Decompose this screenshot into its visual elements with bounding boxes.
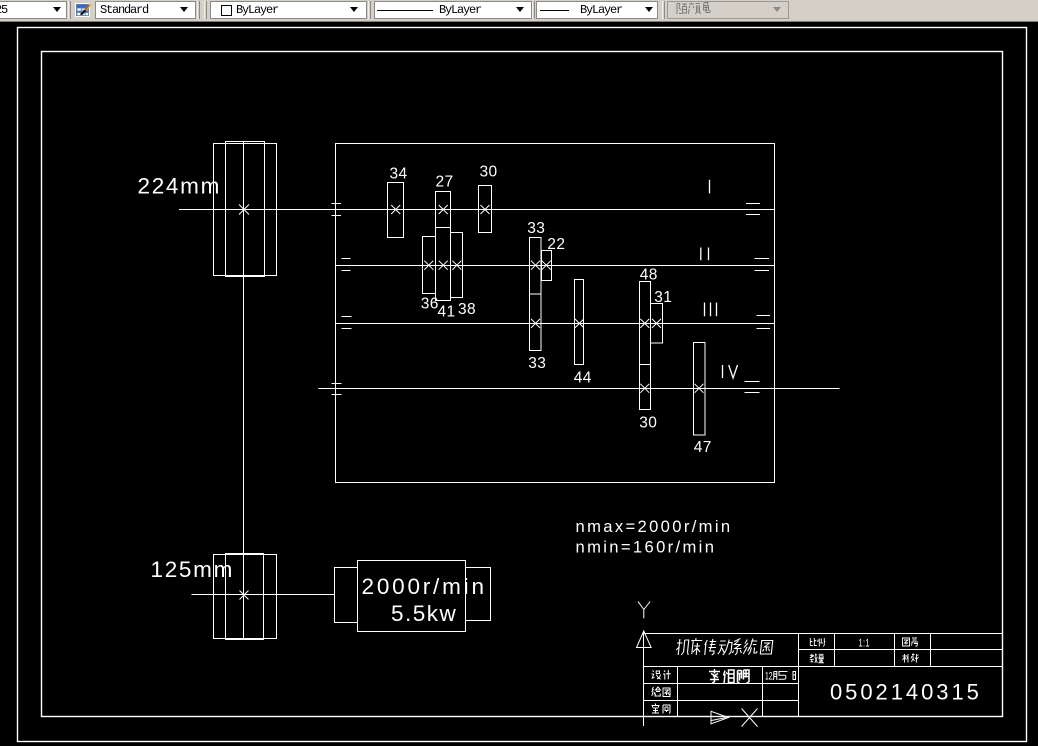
svg-text:1:1: 1:1 [859,636,870,649]
gear 38 [451,233,463,298]
svg-text:33: 33 [528,355,546,372]
pulley P2 belt groove [226,554,264,640]
gear 34 key mark [391,205,400,214]
belt line [243,142,245,640]
char 传 [704,639,717,655]
gear 30 key mark [481,205,490,214]
text style combo [95,1,196,19]
bearing shaft IV right [745,382,760,393]
pulley P2 center mark [240,591,249,600]
title block line row3 [644,683,799,685]
label 数量 [810,654,824,663]
随 [677,4,687,15]
label 比例 [810,638,825,647]
grips [197,1,200,19]
gear 22 key mark [542,261,551,270]
title text 机床传动系统图 [676,638,773,655]
toolbar grip [68,1,71,19]
pulley P2 125mm rim [214,555,277,639]
gear 38 key mark [452,261,461,270]
label 绘图 [652,687,670,697]
date glyph month [773,672,777,681]
motor rear housing [466,568,491,621]
svg-text:2000r/min: 2000r/min [362,574,487,599]
svg-text:22: 22 [547,236,565,253]
title block scale row divider [799,649,1003,651]
gear 47 key mark [695,384,704,393]
title block outline top [644,633,1003,635]
motor coupling flange [335,568,358,623]
title block col scale [834,634,836,667]
bearing shaft III left [342,317,352,329]
bearing shaft II right [755,259,770,271]
pulley P1 belt groove [226,142,265,277]
svg-text:44: 44 [574,370,592,387]
shaft I [179,209,775,211]
bearing shaft I left [332,204,342,216]
gear 33 lower [530,294,542,351]
gear 47 [694,343,706,436]
svg-text:31: 31 [654,289,672,306]
grip [532,1,535,19]
motor shaft line [192,594,336,596]
plot style combo (disabled) [667,1,789,19]
svg-text:41: 41 [438,303,456,320]
gear 30 lower [640,365,651,410]
gear 31 [651,304,663,344]
svg-text:224mm: 224mm [138,174,222,199]
gear 27 key mark [439,205,448,214]
label 材料 [903,654,919,663]
svg-text:30: 30 [639,415,657,432]
svg-text:nmin=160r/min: nmin=160r/min [576,538,717,557]
title block left edge [643,634,645,718]
char 系 [732,639,743,656]
gear 44 [575,280,584,365]
svg-text:12: 12 [765,670,773,682]
gear 34 [388,183,404,238]
gear 30 lower key mark [640,384,649,393]
shaft II [336,265,775,267]
shaft III numeral [705,303,717,317]
color combo [210,1,367,19]
svg-text:5.5kw: 5.5kw [391,601,457,626]
色 [703,3,710,13]
date glyph 5 [779,672,788,680]
svg-text:0502140315: 0502140315 [830,680,982,705]
svg-text:36: 36 [421,296,439,313]
svg-text:48: 48 [640,267,658,284]
label 图号 [903,638,919,646]
svg-text:30: 30 [480,164,498,181]
svg-text:27: 27 [436,173,454,190]
motor body [358,561,466,632]
title block col name [762,667,764,718]
title block col labels [677,667,679,718]
svg-text:38: 38 [458,301,476,318]
title block line row2 [644,666,1003,668]
label 李旭鹏 name [709,669,749,684]
grip [662,1,665,19]
title block line row4 [644,700,799,702]
pulley P1 center mark [239,205,249,215]
svg-text:47: 47 [694,439,712,456]
gear 36 key mark [424,261,433,270]
gear 22 [542,251,552,281]
bearing shaft III right [757,316,771,329]
shaft III [336,323,775,325]
char 图 [760,641,772,655]
label 设计 [652,670,671,680]
label 审阅 [652,704,671,714]
shaft IV numeral [723,365,738,378]
gear 31 key mark [652,319,661,328]
gear 48 key mark [640,319,649,328]
char 机 [676,639,690,655]
gear 41 [436,228,451,301]
UCS X letter [742,709,758,727]
gear 44 key mark [575,319,584,328]
gear 41 key mark [439,261,448,270]
bearing shaft I right [746,204,760,215]
title block col scaleval [894,634,896,667]
linetype combo [374,1,532,19]
date glyph day [793,672,796,680]
grip [368,1,371,19]
bearing shaft II left [342,259,351,271]
char 统 [743,639,758,655]
颜 [689,3,701,15]
shaft II numeral [701,248,709,261]
svg-text:34: 34 [390,166,408,183]
char 动 [718,640,733,656]
bearing shaft IV left [332,384,342,395]
gearbox housing [336,144,775,483]
UCS Y arrowhead [637,631,652,648]
table/text style icon button [74,1,92,19]
title block col mid [798,634,800,718]
gear 27 [436,192,451,228]
lineweight combo [536,1,658,19]
UCS X arrow inner line [712,718,727,721]
gear 33 upper [530,238,542,295]
shaft I numeral [709,180,711,194]
title block col drawno [930,634,932,667]
UCS Y axis line [643,632,645,727]
UCS Y letter [638,602,650,619]
svg-text:33: 33 [527,220,545,237]
svg-text:nmax=2000r/min: nmax=2000r/min [576,517,733,536]
gear 33 upper key mark [531,261,540,270]
gear 33 lower key mark [531,319,540,328]
svg-text:125mm: 125mm [151,557,235,582]
gear 30 [479,186,492,233]
dim-style combo (cut off at left) [0,1,67,19]
shaft IV spindle [318,388,839,390]
UCS X arrowhead [711,711,729,724]
gear 48 [640,282,651,365]
gear 36 [423,237,436,294]
pulley P1 224mm rim [214,144,277,276]
char 床 [690,638,703,655]
